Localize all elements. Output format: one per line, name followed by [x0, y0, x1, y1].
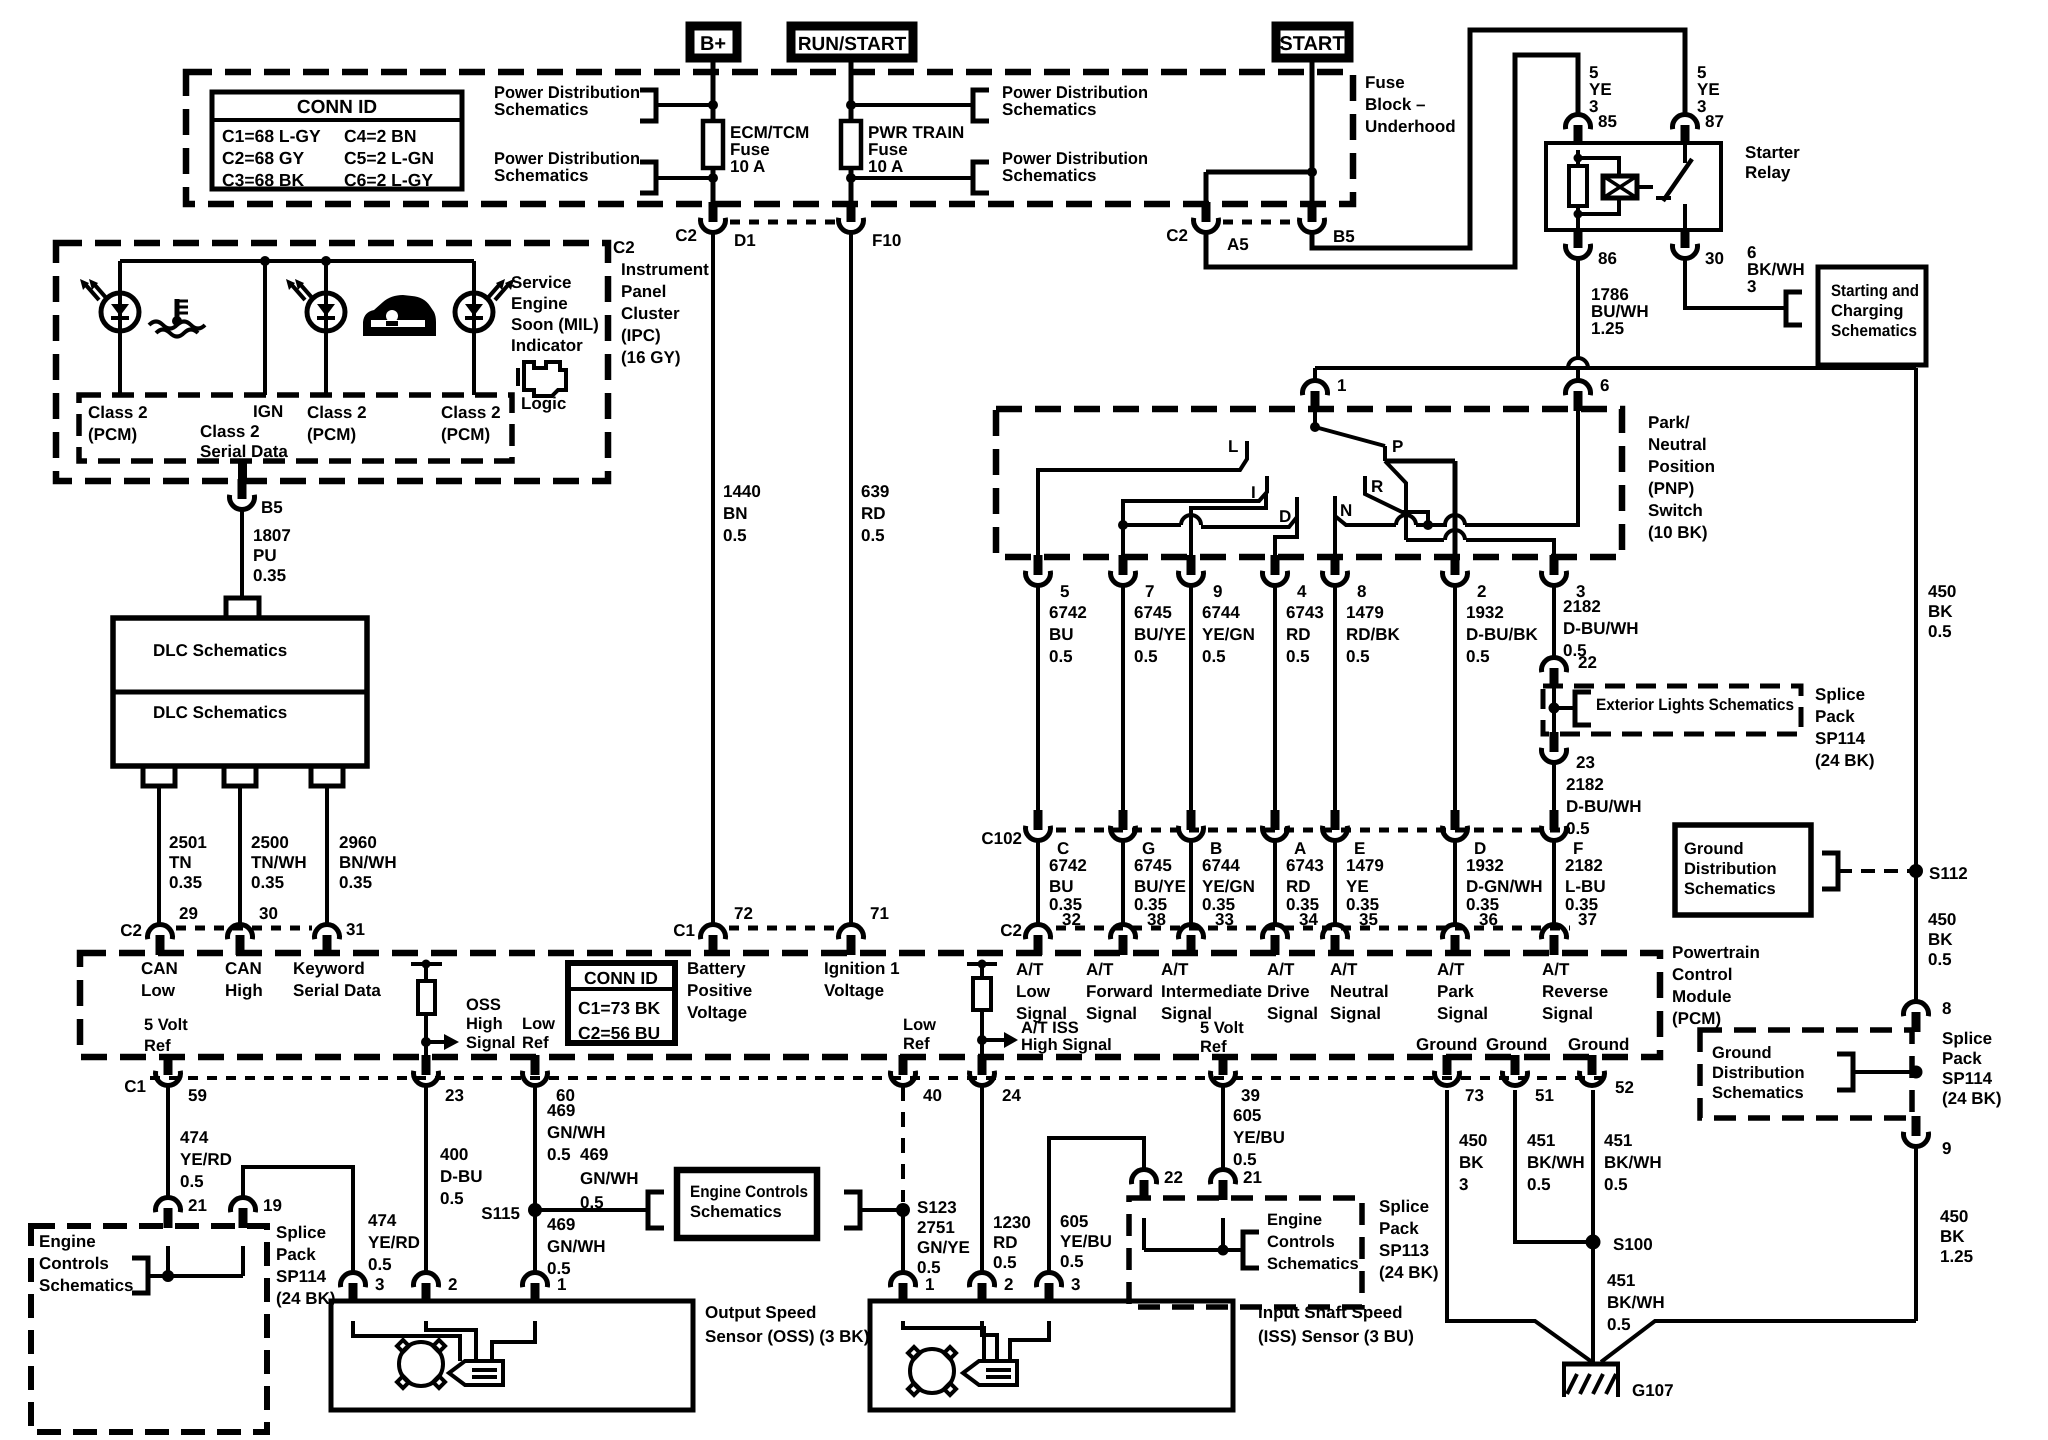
svg-text:Switch: Switch [1648, 501, 1703, 520]
svg-text:2751: 2751 [917, 1218, 955, 1237]
wire 1807 PU [240, 509, 244, 600]
svg-text:400: 400 [440, 1145, 468, 1164]
svg-text:Neutral: Neutral [1330, 982, 1389, 1001]
svg-text:0.5: 0.5 [1233, 1150, 1257, 1169]
svg-text:(10 BK): (10 BK) [1648, 523, 1708, 542]
wire A to C2 pin 34 [1273, 840, 1277, 925]
connector 23 exterior lights splice [1550, 732, 1559, 752]
connector row dotted line A5-B5 [1223, 220, 1299, 225]
DLC schematics box [113, 618, 367, 766]
svg-text:22: 22 [1578, 653, 1597, 672]
coolant temperature icon [175, 299, 180, 318]
svg-text:Module: Module [1672, 987, 1732, 1006]
box Starting and Charging Schematics [1818, 267, 1926, 365]
svg-text:451: 451 [1604, 1131, 1632, 1150]
svg-text:Serial Data: Serial Data [293, 981, 381, 1000]
wire bracket to bus [1853, 1070, 1916, 1074]
connector 22 (SP113) [1132, 1169, 1157, 1184]
svg-text:0.5: 0.5 [1049, 647, 1073, 666]
svg-text:Soon (MIL): Soon (MIL) [511, 315, 599, 334]
svg-text:D: D [1279, 507, 1291, 526]
svg-text:0.5: 0.5 [993, 1253, 1017, 1272]
svg-text:BU/YE: BU/YE [1134, 625, 1186, 644]
junction dot [708, 173, 718, 183]
svg-text:Keyword: Keyword [293, 959, 365, 978]
indicator lamp 3 (MIL) [455, 293, 493, 331]
svg-text:Low: Low [522, 1015, 555, 1033]
connector 9 [1912, 1116, 1921, 1136]
svg-text:B5: B5 [1333, 227, 1355, 246]
svg-text:36: 36 [1479, 910, 1498, 929]
svg-text:Service: Service [511, 273, 572, 292]
svg-text:N: N [1340, 501, 1352, 520]
connector 22 exterior lights splice [1542, 657, 1567, 672]
svg-text:639: 639 [861, 482, 889, 501]
svg-text:450: 450 [1928, 582, 1956, 601]
connector C1 pin 60 [531, 1055, 540, 1075]
svg-text:CONN ID: CONN ID [584, 968, 658, 988]
IPC inner dashed box [79, 395, 512, 461]
svg-text:Engine: Engine [1267, 1211, 1322, 1229]
svg-text:Ground: Ground [1684, 840, 1744, 858]
svg-text:Distribution: Distribution [1712, 1064, 1805, 1082]
svg-text:Splice: Splice [1942, 1029, 1992, 1048]
svg-text:C102: C102 [981, 829, 1022, 848]
svg-text:(24 BK): (24 BK) [1815, 751, 1875, 770]
connector relay pin 87 [1673, 114, 1698, 129]
svg-text:1: 1 [557, 1275, 566, 1294]
IPC lamp bus wire [120, 259, 474, 263]
svg-text:Control: Control [1672, 965, 1732, 984]
svg-text:Cluster: Cluster [621, 304, 680, 323]
wire 2501 TN [157, 786, 161, 925]
svg-text:BK/WH: BK/WH [1607, 1293, 1665, 1312]
engine controls schematics dashed box (left) [31, 1226, 267, 1432]
svg-text:Engine: Engine [511, 294, 568, 313]
svg-text:TN/WH: TN/WH [251, 853, 307, 872]
svg-text:24: 24 [1002, 1086, 1021, 1105]
wires PNP pins down to C102 [1036, 585, 1040, 812]
indicator lamp 2 [307, 293, 345, 331]
svg-text:0.5: 0.5 [861, 526, 885, 545]
svg-text:450: 450 [1928, 910, 1956, 929]
power node B+ [690, 26, 737, 58]
OSS internal wires [353, 1321, 460, 1361]
connector C2 pin A5 [1202, 202, 1211, 222]
connector row dotted line 29-31 [176, 926, 312, 931]
bracket power distribution upper right [973, 90, 989, 121]
svg-text:474: 474 [180, 1128, 209, 1147]
svg-text:Park/: Park/ [1648, 413, 1690, 432]
svg-text:7: 7 [1145, 582, 1154, 601]
svg-text:Signal: Signal [1437, 1004, 1488, 1023]
svg-text:6744: 6744 [1202, 603, 1240, 622]
svg-text:Instrument: Instrument [621, 260, 709, 279]
connector C2 pin 33 [1179, 924, 1204, 939]
svg-text:Class 2: Class 2 [441, 403, 501, 422]
svg-text:Exterior Lights Schematics: Exterior Lights Schematics [1596, 696, 1794, 714]
bracket right of engine controls box [844, 1192, 860, 1228]
wire below ECM/TCM fuse [711, 168, 716, 204]
connector C2 pin 36 [1443, 924, 1468, 939]
svg-text:B5: B5 [261, 498, 283, 517]
svg-text:72: 72 [734, 904, 753, 923]
wire elbow to connector 1 [1313, 368, 1317, 381]
svg-text:(24 BK): (24 BK) [1942, 1089, 2002, 1108]
svg-text:C5=2 L-GN: C5=2 L-GN [344, 148, 434, 168]
svg-text:Position: Position [1648, 457, 1715, 476]
starter relay box [1546, 143, 1721, 230]
dashed wire pin 40 to S123 [901, 1086, 905, 1202]
svg-text:1440: 1440 [723, 482, 761, 501]
svg-text:Ref: Ref [903, 1035, 930, 1053]
junction dot lamp2 [321, 256, 331, 266]
svg-text:Splice: Splice [1379, 1197, 1429, 1216]
svg-text:23: 23 [445, 1086, 464, 1105]
svg-text:Ref: Ref [144, 1037, 171, 1055]
svg-text:Pack: Pack [1942, 1049, 1982, 1068]
svg-text:GN/WH: GN/WH [580, 1169, 639, 1188]
wire 1230 RD pin 24 to ISS 2 [980, 1086, 984, 1273]
ISS sensor symbol [910, 1349, 954, 1393]
svg-text:87: 87 [1705, 112, 1724, 131]
svg-text:Schematics: Schematics [1684, 880, 1776, 898]
svg-text:9: 9 [1942, 1139, 1951, 1158]
svg-text:3: 3 [1459, 1175, 1468, 1194]
svg-text:Logic: Logic [521, 394, 566, 413]
connector 8 [1904, 1001, 1929, 1016]
bracket engine controls mid [648, 1192, 664, 1228]
svg-text:Battery: Battery [687, 959, 746, 978]
svg-text:1807: 1807 [253, 526, 291, 545]
wire to power distribution lower right [851, 176, 973, 180]
engine icon [524, 362, 566, 396]
svg-text:73: 73 [1465, 1086, 1484, 1105]
indicator lamp 1 [101, 293, 139, 331]
svg-text:29: 29 [179, 904, 198, 923]
svg-text:0.5: 0.5 [580, 1193, 604, 1212]
svg-text:Ignition 1: Ignition 1 [824, 959, 900, 978]
svg-text:C2: C2 [120, 921, 142, 940]
svg-text:YE/BU: YE/BU [1060, 1232, 1112, 1251]
svg-text:YE/BU: YE/BU [1233, 1128, 1285, 1147]
svg-text:451: 451 [1607, 1271, 1635, 1290]
svg-text:C2=56 BU: C2=56 BU [578, 1023, 660, 1043]
svg-text:Serial Data: Serial Data [200, 442, 288, 461]
svg-text:Ground: Ground [1712, 1044, 1772, 1062]
svg-text:Sensor (OSS) (3 BK): Sensor (OSS) (3 BK) [705, 1327, 869, 1346]
bracket to starting and charging schematics [1786, 292, 1802, 325]
svg-text:A/T: A/T [1016, 960, 1044, 979]
wire pin3 to connector 22 [1552, 585, 1556, 658]
svg-text:G107: G107 [1632, 1381, 1674, 1400]
svg-text:Schematics: Schematics [39, 1276, 134, 1295]
svg-text:A/T: A/T [1330, 960, 1358, 979]
svg-text:RUN/START: RUN/START [798, 34, 907, 55]
svg-text:Pack: Pack [1815, 707, 1855, 726]
svg-text:A/T: A/T [1267, 960, 1295, 979]
wire below PWR TRAIN fuse [849, 168, 854, 204]
svg-text:(24 BK): (24 BK) [1379, 1263, 1439, 1282]
wire bus return to ground [1601, 1321, 1916, 1362]
svg-text:0.5: 0.5 [1527, 1175, 1551, 1194]
svg-text:BK: BK [1928, 930, 1953, 949]
splice S100 [1586, 1235, 1601, 1250]
DLC entry notch [226, 598, 259, 618]
svg-text:RD: RD [993, 1233, 1018, 1252]
bracket engine controls SP113 [1243, 1232, 1259, 1268]
ISS internal wires [903, 1321, 984, 1361]
svg-text:59: 59 [188, 1086, 207, 1105]
connector PNP pin 7 [1119, 555, 1128, 575]
connector PNP pin 9 [1187, 555, 1196, 575]
svg-text:GN/WH: GN/WH [547, 1123, 606, 1142]
svg-text:Engine Controls: Engine Controls [690, 1183, 808, 1201]
connector PNP pin 3 [1550, 555, 1559, 575]
wire G to C2 pin 38 [1121, 840, 1125, 925]
connector OSS pin 1 [522, 1272, 547, 1287]
svg-text:Reverse: Reverse [1542, 982, 1608, 1001]
svg-text:Starting and: Starting and [1831, 282, 1919, 300]
svg-text:1932: 1932 [1466, 603, 1504, 622]
input shaft speed sensor box [870, 1301, 1233, 1410]
svg-text:Controls: Controls [1267, 1233, 1335, 1251]
svg-text:Signal: Signal [1016, 1004, 1067, 1023]
connector PNP pin 6 [1565, 380, 1590, 395]
svg-text:1.25: 1.25 [1591, 319, 1624, 338]
connector C102 pin C [1034, 810, 1043, 830]
svg-text:R: R [1371, 477, 1383, 496]
splice wiring SP114 left [148, 1274, 168, 1278]
wire 474 YE/RD to OSS pin 3 [243, 1167, 353, 1273]
svg-text:S112: S112 [1929, 864, 1968, 883]
svg-text:BU/YE: BU/YE [1134, 877, 1186, 896]
svg-text:F10: F10 [872, 231, 901, 250]
svg-text:Voltage: Voltage [687, 1003, 747, 1022]
connector C2 pin 31 [315, 924, 340, 939]
ground G107 [1562, 1362, 1620, 1367]
wire IGN [263, 261, 267, 395]
svg-text:BK/WH: BK/WH [1527, 1153, 1585, 1172]
svg-text:Input Shaft Speed: Input Shaft Speed [1258, 1303, 1403, 1322]
svg-text:Drive: Drive [1267, 982, 1310, 1001]
svg-text:D-BU/WH: D-BU/WH [1563, 619, 1639, 638]
svg-text:Charging: Charging [1831, 302, 1903, 320]
svg-text:0.35: 0.35 [339, 873, 372, 892]
svg-text:(24 BK): (24 BK) [276, 1289, 336, 1308]
svg-text:C4=2 BN: C4=2 BN [344, 126, 416, 146]
svg-text:B+: B+ [700, 33, 726, 55]
svg-text:0.5: 0.5 [1346, 647, 1370, 666]
connector C2 pin F10 [847, 202, 856, 222]
svg-text:(IPC): (IPC) [621, 326, 661, 345]
connector PNP pin 5 [1034, 555, 1043, 575]
svg-text:1932: 1932 [1466, 856, 1504, 875]
svg-text:469: 469 [547, 1215, 575, 1234]
connector pin B5 fuse block [1308, 202, 1317, 222]
connector PNP pin 8 [1331, 555, 1340, 575]
relay coil lower wire [1576, 206, 1580, 230]
svg-text:START: START [1279, 33, 1344, 55]
box Ground Distribution Schematics [1675, 825, 1811, 915]
svg-text:2182: 2182 [1565, 856, 1603, 875]
DLC exit notches [143, 766, 175, 786]
svg-text:Class 2: Class 2 [200, 422, 260, 441]
wire 469 GN/WH pin 60 [533, 1086, 537, 1273]
wire B5 to relay 87 [1312, 30, 1685, 248]
svg-text:Schematics: Schematics [690, 1203, 782, 1221]
svg-text:Controls: Controls [39, 1254, 109, 1273]
relay coil [1578, 158, 1619, 176]
svg-text:3: 3 [375, 1275, 384, 1294]
svg-text:C2: C2 [613, 238, 635, 257]
connector PNP pin 2 [1451, 555, 1460, 575]
svg-text:Signal: Signal [1086, 1004, 1137, 1023]
svg-text:5 Volt: 5 Volt [144, 1016, 188, 1034]
wire lamp3 [472, 261, 476, 293]
svg-text:Schematics: Schematics [1267, 1255, 1359, 1273]
svg-text:Indicator: Indicator [511, 336, 583, 355]
junction dot splice [1549, 703, 1560, 714]
svg-text:9: 9 [1213, 582, 1222, 601]
connector 21 (SP113) [1210, 1169, 1235, 1184]
svg-text:451: 451 [1527, 1131, 1555, 1150]
wire lamp2 [324, 261, 328, 293]
svg-text:6745: 6745 [1134, 603, 1172, 622]
svg-text:Schematics: Schematics [1002, 100, 1097, 119]
fuse block underhood dashed box [186, 72, 1353, 204]
svg-text:YE/GN: YE/GN [1202, 877, 1255, 896]
svg-text:C1=73 BK: C1=73 BK [578, 998, 661, 1018]
junction dot [846, 100, 856, 110]
connector C2 pin 38 [1111, 924, 1136, 939]
OSS pullup resistor in PCM [411, 962, 442, 966]
svg-text:0.5: 0.5 [1286, 647, 1310, 666]
wire 450 BK right bus [1914, 368, 1918, 1001]
svg-text:0.5: 0.5 [368, 1255, 392, 1274]
relay switch [1683, 143, 1687, 163]
wire START vertical [1310, 58, 1315, 204]
wire P to pin 2 [1385, 459, 1455, 464]
svg-text:Pack: Pack [1379, 1219, 1419, 1238]
PNP wiper from pin 1 [1313, 411, 1317, 427]
connector ISS pin 1 [891, 1272, 916, 1287]
wire lamp2 down [324, 331, 328, 395]
svg-text:C3=68 BK: C3=68 BK [222, 170, 305, 190]
svg-text:0.5: 0.5 [547, 1145, 571, 1164]
output speed sensor box [331, 1301, 693, 1410]
svg-text:P: P [1392, 437, 1403, 456]
relay coil resistor [1576, 150, 1580, 166]
connector C1 pin 72 [701, 924, 726, 939]
connector row dotted line 72-71 [729, 926, 837, 931]
svg-text:6743: 6743 [1286, 856, 1324, 875]
wire B+ vertical [711, 58, 716, 121]
pin 4 elbow to contact D [1275, 517, 1297, 555]
svg-text:Low: Low [141, 981, 176, 1000]
park neutral position switch dashed box [996, 409, 1622, 557]
splice S115 [528, 1203, 542, 1217]
svg-text:Low: Low [1016, 982, 1051, 1001]
junction dot [708, 100, 718, 110]
connector C1 pin 52 [1588, 1055, 1597, 1075]
wire 450 BK pin 73 [1447, 1090, 1592, 1362]
svg-text:0.5: 0.5 [180, 1172, 204, 1191]
svg-text:0.5: 0.5 [1466, 647, 1490, 666]
svg-text:Pack: Pack [276, 1245, 316, 1264]
wire lamp3 down [472, 331, 476, 395]
hop over 1786 wire [1568, 358, 1588, 368]
wire 450 BK 1.25 down [1914, 1146, 1918, 1321]
wire 639 RD from F10 to pin 71 [849, 232, 853, 925]
connector ISS pin 3 [1037, 1272, 1062, 1287]
connector PNP pin 4 [1271, 555, 1280, 575]
svg-text:A/T: A/T [1086, 960, 1114, 979]
connector C1 pin 51 [1511, 1055, 1520, 1075]
svg-text:30: 30 [259, 904, 278, 923]
splice pack SP113 dashed box [1129, 1198, 1362, 1307]
svg-text:33: 33 [1215, 910, 1234, 929]
svg-text:S123: S123 [917, 1198, 957, 1217]
svg-text:0.35: 0.35 [253, 566, 286, 585]
svg-text:High Signal: High Signal [1021, 1036, 1112, 1054]
svg-text:0.5: 0.5 [1928, 622, 1952, 641]
svg-text:Relay: Relay [1745, 163, 1791, 182]
svg-text:71: 71 [870, 904, 889, 923]
bracket to power distribution lower left [640, 162, 656, 193]
svg-text:Schematics: Schematics [1712, 1084, 1804, 1102]
svg-text:Intermediate: Intermediate [1161, 982, 1262, 1001]
wire lamp1 [118, 261, 122, 293]
svg-text:C2: C2 [1000, 921, 1022, 940]
svg-text:(PCM): (PCM) [1672, 1009, 1721, 1028]
wire E to C2 pin 35 [1333, 840, 1337, 925]
bracket engine controls left [132, 1258, 148, 1293]
connector B5 (IPC) [238, 479, 247, 499]
bracket ground distribution [1822, 853, 1838, 889]
svg-text:0.35: 0.35 [169, 873, 202, 892]
connector row dotted line D1-F10 [730, 220, 838, 225]
connector C102 pin G [1119, 810, 1128, 830]
svg-text:605: 605 [1060, 1212, 1088, 1231]
svg-text:34: 34 [1299, 910, 1318, 929]
wire 474 YE/RD pin 59 [166, 1086, 170, 1198]
svg-text:(PCM): (PCM) [88, 425, 137, 444]
wire ISS3 to connector 22 [1049, 1138, 1144, 1273]
svg-text:2182: 2182 [1563, 597, 1601, 616]
wire RUN/START vertical [849, 58, 854, 121]
svg-text:0.5: 0.5 [1928, 950, 1952, 969]
wire junction to A5 [1206, 170, 1312, 175]
svg-text:2501: 2501 [169, 833, 207, 852]
svg-text:Park: Park [1437, 982, 1474, 1001]
svg-text:1: 1 [925, 1275, 934, 1294]
wire 1440 BN from D1 to pin 72 [711, 232, 715, 925]
svg-text:High: High [225, 981, 263, 1000]
svg-text:469: 469 [580, 1145, 608, 1164]
connector C1 pin 24 [978, 1055, 987, 1075]
CONN ID table (PCM) [568, 963, 675, 1043]
svg-text:Schematics: Schematics [1831, 322, 1917, 340]
svg-text:450: 450 [1459, 1131, 1487, 1150]
box Engine Controls Schematics (mid) [677, 1170, 817, 1238]
connector relay pin 85 [1565, 114, 1590, 129]
svg-text:TN: TN [169, 853, 192, 872]
connector C2 pin 37 [1542, 924, 1567, 939]
svg-text:30: 30 [1705, 249, 1724, 268]
instrument panel cluster dashed box [56, 243, 608, 481]
svg-text:1: 1 [1337, 376, 1346, 395]
